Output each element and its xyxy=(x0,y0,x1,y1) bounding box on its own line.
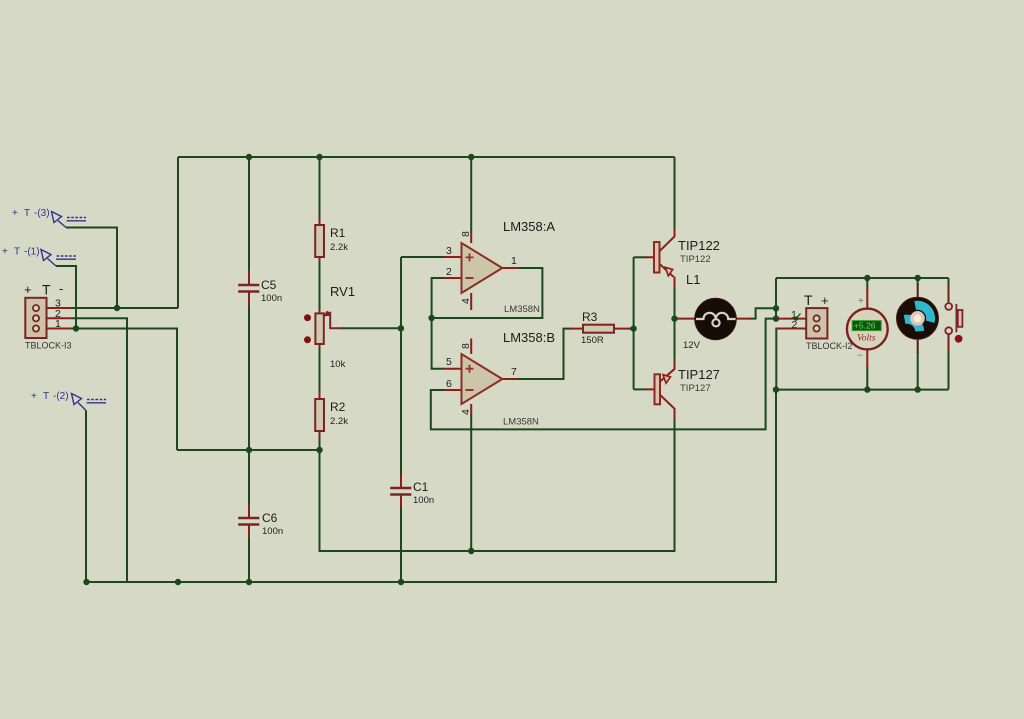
red leads C6 xyxy=(248,504,250,538)
wire button column xyxy=(948,278,950,286)
svg-text:1: 1 xyxy=(55,318,61,330)
red leads C1 xyxy=(400,474,402,507)
svg-text:-(1): -(1) xyxy=(24,247,40,258)
wire op-amp B pin4 to negative rail xyxy=(470,415,472,551)
red leads op-amp A xyxy=(444,231,518,310)
svg-text:R1: R1 xyxy=(330,226,346,240)
wire lamp node to TIP127 emitter xyxy=(674,319,676,360)
wire TIP122 emitter to lamp node xyxy=(674,286,676,319)
svg-text:+: + xyxy=(31,391,37,402)
svg-text:100n: 100n xyxy=(413,495,434,506)
red leads lamp L1 xyxy=(677,318,751,320)
wire TBLOCK-I3 pin1 net xyxy=(72,329,177,451)
lamp filament xyxy=(696,313,736,319)
RV1 adjust buttons xyxy=(304,314,311,321)
svg-text:−: − xyxy=(857,351,863,362)
voltmeter xyxy=(847,309,888,350)
svg-text:T: T xyxy=(42,282,51,298)
svg-text:-(3): -(3) xyxy=(34,208,50,219)
svg-text:+5.26: +5.26 xyxy=(854,321,876,331)
wire transistor base column xyxy=(633,257,635,389)
TBLOCK-I3 pin 1 circle xyxy=(33,325,39,331)
op-amp U1:B LM358 xyxy=(462,354,503,404)
wire TIP127 collector to negative rail xyxy=(674,418,676,551)
svg-text:2.2k: 2.2k xyxy=(330,242,348,253)
svg-text:2: 2 xyxy=(446,266,452,278)
TBLOCK-I3 pin 3 circle xyxy=(33,305,39,311)
connector TBLOCK-I3 xyxy=(25,298,46,338)
wire mid rail y450 xyxy=(177,449,320,451)
junction node 20 xyxy=(864,275,870,281)
svg-text:8: 8 xyxy=(460,231,472,237)
wire terminal (1) to pin1 xyxy=(56,266,76,329)
wire right loop bottom rail xyxy=(776,389,949,391)
junction node 4 xyxy=(114,305,120,311)
svg-text:TIP127: TIP127 xyxy=(678,367,720,382)
svg-text:3: 3 xyxy=(446,245,452,257)
op-amp U1:A LM358 xyxy=(462,243,503,293)
svg-text:5: 5 xyxy=(446,356,452,368)
red lead TIP127 emitter xyxy=(660,359,675,382)
svg-text:8: 8 xyxy=(460,343,472,349)
svg-text:TIP127: TIP127 xyxy=(680,383,711,394)
svg-text:10k: 10k xyxy=(330,359,346,370)
wire right loop left vertical xyxy=(775,278,777,319)
red leads C5 xyxy=(248,271,250,305)
red leads fan xyxy=(917,284,919,353)
wire op-amp B pin6 feedback to output node xyxy=(431,319,776,430)
red leads R3 xyxy=(570,328,629,330)
resistor R1 xyxy=(315,225,324,257)
svg-text:RV1: RV1 xyxy=(330,284,355,299)
TBLOCK-I2 pin 2 circle xyxy=(814,325,820,331)
junction node 15 xyxy=(630,325,636,331)
wire op-amp A feedback / pin2 xyxy=(432,268,543,318)
svg-text:7: 7 xyxy=(511,366,517,378)
wire RV1 wiper xyxy=(326,313,343,329)
TBLOCK-I2 pin 1 circle xyxy=(814,315,820,321)
wire bottom ground rail xyxy=(87,390,777,582)
wire R2 bottom to negative rail y551 xyxy=(320,418,675,551)
svg-text:TBLOCK-I2: TBLOCK-I2 xyxy=(806,341,853,351)
svg-text:+: + xyxy=(821,293,829,308)
svg-text:C6: C6 xyxy=(262,511,278,525)
svg-text:4: 4 xyxy=(460,298,472,304)
junction node 11 xyxy=(316,447,322,453)
junction node 3 xyxy=(468,154,474,160)
junction node 2 xyxy=(316,154,322,160)
svg-text:+: + xyxy=(2,247,8,258)
wire op-amp A pin8 to V+ xyxy=(470,157,472,232)
junction node 10 xyxy=(246,447,252,453)
svg-text:2: 2 xyxy=(792,319,798,331)
red leads voltmeter xyxy=(866,288,868,368)
capacitor C6 xyxy=(238,518,259,525)
junction node 16 xyxy=(671,315,677,321)
svg-text:100n: 100n xyxy=(262,526,283,537)
svg-text:LM358N: LM358N xyxy=(503,417,539,428)
svg-text:T: T xyxy=(24,208,30,219)
svg-text:R2: R2 xyxy=(330,400,346,414)
svg-text:12V: 12V xyxy=(683,340,701,351)
svg-text:TIP122: TIP122 xyxy=(680,254,711,265)
potentiometer RV1 xyxy=(315,313,323,344)
junction node 22 xyxy=(864,386,870,392)
junction node 19 xyxy=(773,386,779,392)
button press dot xyxy=(955,335,963,343)
wire right loop top rail xyxy=(776,277,949,279)
junction node 17 xyxy=(773,305,779,311)
red lead TIP127 collector xyxy=(660,395,675,419)
wire top rail xyxy=(178,156,675,158)
svg-text:-: - xyxy=(59,281,63,296)
transistor Q1 TIP122 xyxy=(654,242,660,273)
junction node 12 xyxy=(398,325,404,331)
svg-text:+: + xyxy=(24,282,32,297)
origin marker at pin1 xyxy=(794,316,798,320)
wire left rail upper (pin3 to top rail) xyxy=(177,157,179,308)
svg-text:1: 1 xyxy=(511,255,517,267)
svg-text:6: 6 xyxy=(446,378,452,390)
svg-text:Volts: Volts xyxy=(857,333,876,343)
wire TBLOCK-I3 pin2 down to ground xyxy=(72,318,127,582)
wire TIP122 collector to top rail xyxy=(674,157,676,229)
capacitor C1 xyxy=(390,488,411,495)
junction node 9 xyxy=(398,579,404,585)
transistor Q2 TIP127 xyxy=(655,374,661,404)
svg-text:T: T xyxy=(804,292,813,308)
lamp L1 xyxy=(695,298,737,340)
junction node 7 xyxy=(175,579,181,585)
wire TBLOCK-I3 pin3 net xyxy=(72,307,178,309)
svg-text:C1: C1 xyxy=(413,480,429,494)
svg-text:T: T xyxy=(14,247,20,258)
wire node A column (op-amp A pin3 / RV1 wiper / C1) xyxy=(400,257,402,475)
svg-text:4: 4 xyxy=(460,409,472,415)
red lead TIP122 emitter xyxy=(660,264,675,287)
fan hub xyxy=(912,313,923,324)
svg-text:C5: C5 xyxy=(261,278,277,292)
wire voltmeter column xyxy=(866,278,868,289)
red leads TBLOCK-I3 pins xyxy=(39,308,72,329)
junction node 1 xyxy=(246,154,252,160)
junction node 13 xyxy=(428,315,434,321)
wire lamp right to output node xyxy=(750,308,776,318)
svg-text:100n: 100n xyxy=(261,293,282,304)
junction node 21 xyxy=(915,275,921,281)
red leads TBLOCK-I2 xyxy=(776,319,806,329)
wire terminal (3) to pin3 xyxy=(66,228,117,309)
svg-text:+: + xyxy=(858,296,864,307)
svg-text:TBLOCK-I3: TBLOCK-I3 xyxy=(25,341,72,351)
junction node 14 xyxy=(468,548,474,554)
capacitor C5 xyxy=(238,285,259,292)
svg-text:L1: L1 xyxy=(686,272,700,287)
fan / motor xyxy=(897,297,939,339)
svg-text:T: T xyxy=(43,391,49,402)
junction node 8 xyxy=(246,579,252,585)
junction node 23 xyxy=(915,386,921,392)
wire R3 right to base node xyxy=(628,328,634,330)
resistor R3 xyxy=(583,325,614,333)
connector TBLOCK-I2 xyxy=(806,308,827,338)
wire TBLOCK-I2 pin2 down to bottom rail xyxy=(775,328,777,390)
voltmeter display xyxy=(852,321,881,331)
svg-text:TIP122: TIP122 xyxy=(678,238,720,253)
wire terminal (2) down to ground xyxy=(85,411,87,583)
red lead TIP122 collector xyxy=(660,228,675,251)
svg-text:-(2): -(2) xyxy=(53,391,69,402)
svg-text:LM358:A: LM358:A xyxy=(503,219,555,234)
svg-text:LM358N: LM358N xyxy=(504,304,540,315)
junction node 6 xyxy=(83,579,89,585)
svg-text:LM358:B: LM358:B xyxy=(503,330,555,345)
wire op-amp B output to R3 xyxy=(518,329,572,379)
junction node 5 xyxy=(73,325,79,331)
svg-text:R3: R3 xyxy=(582,310,598,324)
resistor R2 xyxy=(315,399,324,431)
wire node B down to op-amp B pin5 xyxy=(432,318,444,369)
svg-text:2.2k: 2.2k xyxy=(330,416,348,427)
red leads op-amp B xyxy=(444,339,518,417)
svg-text:+: + xyxy=(12,208,18,219)
TBLOCK-I3 pin 2 circle xyxy=(33,315,39,321)
wire fan column xyxy=(917,278,919,285)
wire R divider column xyxy=(319,157,321,220)
fan cyan blades xyxy=(915,305,930,321)
push button xyxy=(945,303,952,310)
wire C5 C6 column xyxy=(248,157,250,272)
red leads R column xyxy=(319,218,321,438)
svg-text:150R: 150R xyxy=(581,335,604,346)
junction node 18 xyxy=(773,315,779,321)
red leads transistor bases xyxy=(646,257,654,389)
